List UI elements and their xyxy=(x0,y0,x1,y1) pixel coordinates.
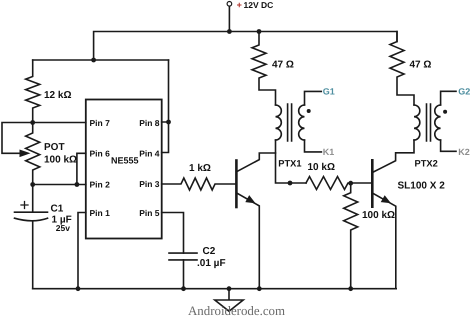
Q2 emitter arrow xyxy=(381,195,391,203)
wire pin8 pin4 tie xyxy=(162,60,169,153)
svg-text:Androiderode.com: Androiderode.com xyxy=(188,304,285,316)
PTX1 phase dot xyxy=(307,109,311,113)
svg-text:PTX2: PTX2 xyxy=(415,159,438,169)
potentiometer VR1 100k xyxy=(26,123,40,185)
svg-text:Pin 2: Pin 2 xyxy=(90,179,111,189)
svg-text:PTX1: PTX1 xyxy=(278,159,301,169)
pot wiper arrow xyxy=(20,150,31,158)
transformer PTX2 secondary coil xyxy=(435,105,441,140)
transistor Q2 base bar xyxy=(371,160,374,206)
Q1 emitter arrow xyxy=(245,195,255,203)
junction dot ground symbol xyxy=(227,286,232,291)
svg-text:100 kΩ: 100 kΩ xyxy=(362,210,395,221)
junction dot pin8 xyxy=(166,120,171,125)
resistor R4 10k xyxy=(306,177,371,190)
wire pot wiper loop xyxy=(2,123,33,154)
svg-text:10 kΩ: 10 kΩ xyxy=(308,162,335,173)
wire pin6 tie to pin2 xyxy=(77,153,86,184)
svg-text:47 Ω: 47 Ω xyxy=(272,60,294,71)
svg-text:G2: G2 xyxy=(458,86,470,96)
svg-text:+: + xyxy=(237,0,242,10)
svg-text:25v: 25v xyxy=(56,223,70,233)
PTX2 phase dot xyxy=(443,110,447,114)
wire PTX1 primary bottom xyxy=(276,140,307,183)
svg-text:SL100 X 2: SL100 X 2 xyxy=(398,181,446,192)
svg-text:12V DC: 12V DC xyxy=(244,0,274,10)
junction dot R1 bottom xyxy=(30,120,35,125)
svg-text:K2: K2 xyxy=(458,147,470,157)
resistor R3 47ohm left xyxy=(252,32,276,106)
C1 plus sign xyxy=(21,202,28,209)
svg-text:Pin 7: Pin 7 xyxy=(90,118,111,128)
transformer PTX2 primary coil xyxy=(414,105,420,140)
junction dot C2 ground xyxy=(181,286,186,291)
wire pin7 xyxy=(33,122,86,124)
svg-text:47 Ω: 47 Ω xyxy=(410,60,432,71)
transistor Q1 emitter xyxy=(236,193,259,289)
junction dot pot bottom xyxy=(30,182,35,187)
capacitor C2 plates xyxy=(169,253,197,260)
svg-text:Pin 8: Pin 8 xyxy=(139,118,160,128)
wire PTX2 secondary K2 xyxy=(441,140,456,151)
wire PTX1 secondary K1 xyxy=(305,140,322,152)
svg-text:POT: POT xyxy=(44,142,65,153)
transistor Q2 collector xyxy=(372,140,414,173)
wire upper rail to 555 xyxy=(33,59,169,61)
junction dot Q1 emitter ground xyxy=(257,286,262,291)
svg-text:Pin 6: Pin 6 xyxy=(90,148,111,158)
wire C2 to ground xyxy=(183,260,185,289)
svg-text:NE555: NE555 xyxy=(111,156,139,166)
resistor R6 47ohm right xyxy=(390,32,414,106)
junction dot pin1 ground xyxy=(76,286,81,291)
resistor R1 12k xyxy=(26,60,40,123)
wire supply drop xyxy=(228,7,230,32)
transistor Q2 emitter xyxy=(372,193,396,289)
junction dot PTX1 bottom xyxy=(288,181,293,186)
svg-text:C1: C1 xyxy=(51,204,64,215)
svg-text:Pin 1: Pin 1 xyxy=(90,208,111,218)
transistor Q1 base bar xyxy=(235,161,238,208)
ground symbol xyxy=(215,289,243,312)
svg-text:Pin 4: Pin 4 xyxy=(139,148,160,158)
resistor R2 1k with pin3 wire xyxy=(162,178,236,190)
wire top power bus xyxy=(94,32,397,61)
junction dot rail xyxy=(91,58,96,63)
svg-text:Pin 3: Pin 3 xyxy=(139,179,160,189)
resistor R5 100k xyxy=(344,183,358,289)
junction dot pin6 tie xyxy=(75,182,80,187)
wire PTX1 secondary G1 xyxy=(305,91,322,105)
svg-text:12 kΩ: 12 kΩ xyxy=(44,90,71,101)
transformer PTX2 core xyxy=(427,104,431,141)
transformer PTX1 secondary coil xyxy=(299,105,305,140)
capacitor C1 leads xyxy=(32,185,34,289)
supply terminal +12V xyxy=(227,2,232,7)
svg-text:.01 µF: .01 µF xyxy=(197,258,226,269)
junction dot supply xyxy=(227,29,232,34)
svg-text:K1: K1 xyxy=(323,147,335,157)
svg-text:Pin 5: Pin 5 xyxy=(139,208,160,218)
capacitor C1 plates xyxy=(15,212,48,221)
svg-text:G1: G1 xyxy=(323,86,335,96)
svg-text:1 kΩ: 1 kΩ xyxy=(189,163,211,174)
transformer PTX1 core xyxy=(288,104,292,141)
svg-text:100 kΩ: 100 kΩ xyxy=(44,155,77,166)
transistor Q1 collector xyxy=(236,153,275,172)
wire PTX2 secondary G2 xyxy=(441,91,456,105)
wire pin2 xyxy=(33,184,86,186)
wire pin1 to ground xyxy=(78,213,86,289)
wire pin5 to C2 xyxy=(162,213,184,254)
junction dot 47ohm bus xyxy=(257,29,262,34)
transformer PTX1 primary coil xyxy=(276,105,282,140)
svg-text:C2: C2 xyxy=(203,246,216,257)
ground bus xyxy=(33,288,397,290)
IC U1 NE555 box xyxy=(86,100,162,239)
junction dot R5 ground xyxy=(348,286,353,291)
junction dot R4 R5 xyxy=(348,181,353,186)
